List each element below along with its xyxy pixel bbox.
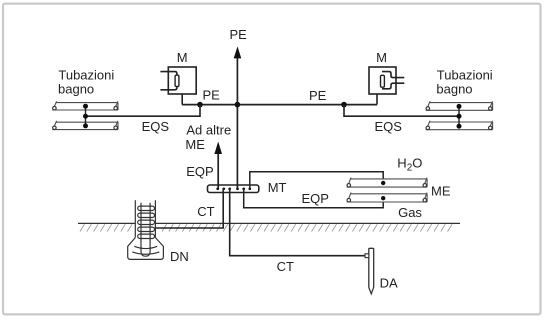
wire pipe bond left: [85, 106, 87, 126]
pipe H2O: [347, 178, 427, 188]
pipe right top: [426, 101, 493, 110]
svg-text:bagno: bagno: [58, 81, 94, 96]
earth rod DA: [365, 248, 374, 293]
svg-text:PE: PE: [309, 88, 327, 103]
junction node right: [341, 102, 347, 108]
svg-text:ME: ME: [185, 137, 205, 152]
node pipe right bottom: [457, 124, 462, 129]
svg-text:M: M: [376, 50, 387, 65]
ground hatch: [80, 224, 452, 231]
conductor CT to DN: [152, 189, 223, 228]
svg-text:EQP: EQP: [186, 164, 213, 179]
conductor PE riser with arrow: [236, 56, 238, 189]
motor M (right): [369, 67, 404, 105]
pipe left bottom: [52, 121, 118, 130]
svg-text:PE: PE: [230, 27, 248, 42]
pipe Gas: [347, 193, 427, 203]
wire EQP to H2O pipe: [250, 172, 383, 189]
wire stub arrow into bar: [217, 185, 219, 189]
bar terminal dots: [216, 187, 251, 190]
svg-text:CT: CT: [277, 259, 294, 274]
svg-text:bagno: bagno: [436, 81, 472, 96]
ground surface line: [78, 222, 135, 224]
svg-text:EQP: EQP: [302, 191, 329, 206]
wire pipe bond right: [458, 106, 460, 126]
node H2O pipe dot repaint: [381, 181, 385, 185]
node EQS left: [83, 114, 88, 119]
wire stub PE into bar: [236, 185, 238, 189]
earth electrode DN (well with coil): [128, 200, 164, 259]
node Gas pipe: [381, 196, 385, 200]
svg-text:Tubazioni: Tubazioni: [437, 67, 493, 82]
svg-text:CT: CT: [197, 204, 214, 219]
node pipe right top: [457, 104, 462, 109]
junction node center: [235, 102, 241, 108]
node H2O pipe: [381, 181, 385, 185]
wire EQS left: [86, 105, 201, 117]
svg-text:Tubazioni: Tubazioni: [58, 67, 114, 82]
svg-text:DA: DA: [380, 275, 398, 290]
svg-text:MT: MT: [268, 180, 287, 195]
svg-text:ME: ME: [431, 184, 451, 199]
conductor EQP arrow to other ME: [217, 153, 219, 189]
motor M (left): [160, 67, 196, 105]
svg-text:EQS: EQS: [375, 119, 403, 134]
wire PE bus (main horizontal): [182, 104, 377, 106]
svg-text:EQS: EQS: [142, 119, 170, 134]
svg-text:Ad altre: Ad altre: [186, 123, 231, 138]
pipe right bottom: [426, 121, 493, 130]
svg-text:Gas: Gas: [398, 205, 422, 220]
node EQS right: [457, 114, 462, 119]
junction node left: [197, 102, 203, 108]
conductor CT to DA: [230, 189, 365, 256]
node Gas pipe dot repaint: [381, 196, 385, 200]
node pipe left top: [83, 104, 88, 109]
node pipe left bottom: [83, 123, 88, 128]
node DN connection: [152, 226, 156, 230]
wire EQP to Gas pipe: [244, 189, 384, 208]
svg-text:DN: DN: [170, 249, 189, 264]
main terminal MT bar: [208, 185, 259, 193]
wire EQS right: [344, 105, 459, 117]
pipe left top: [52, 101, 118, 110]
svg-text:PE: PE: [203, 87, 221, 102]
svg-text:M: M: [177, 50, 188, 65]
